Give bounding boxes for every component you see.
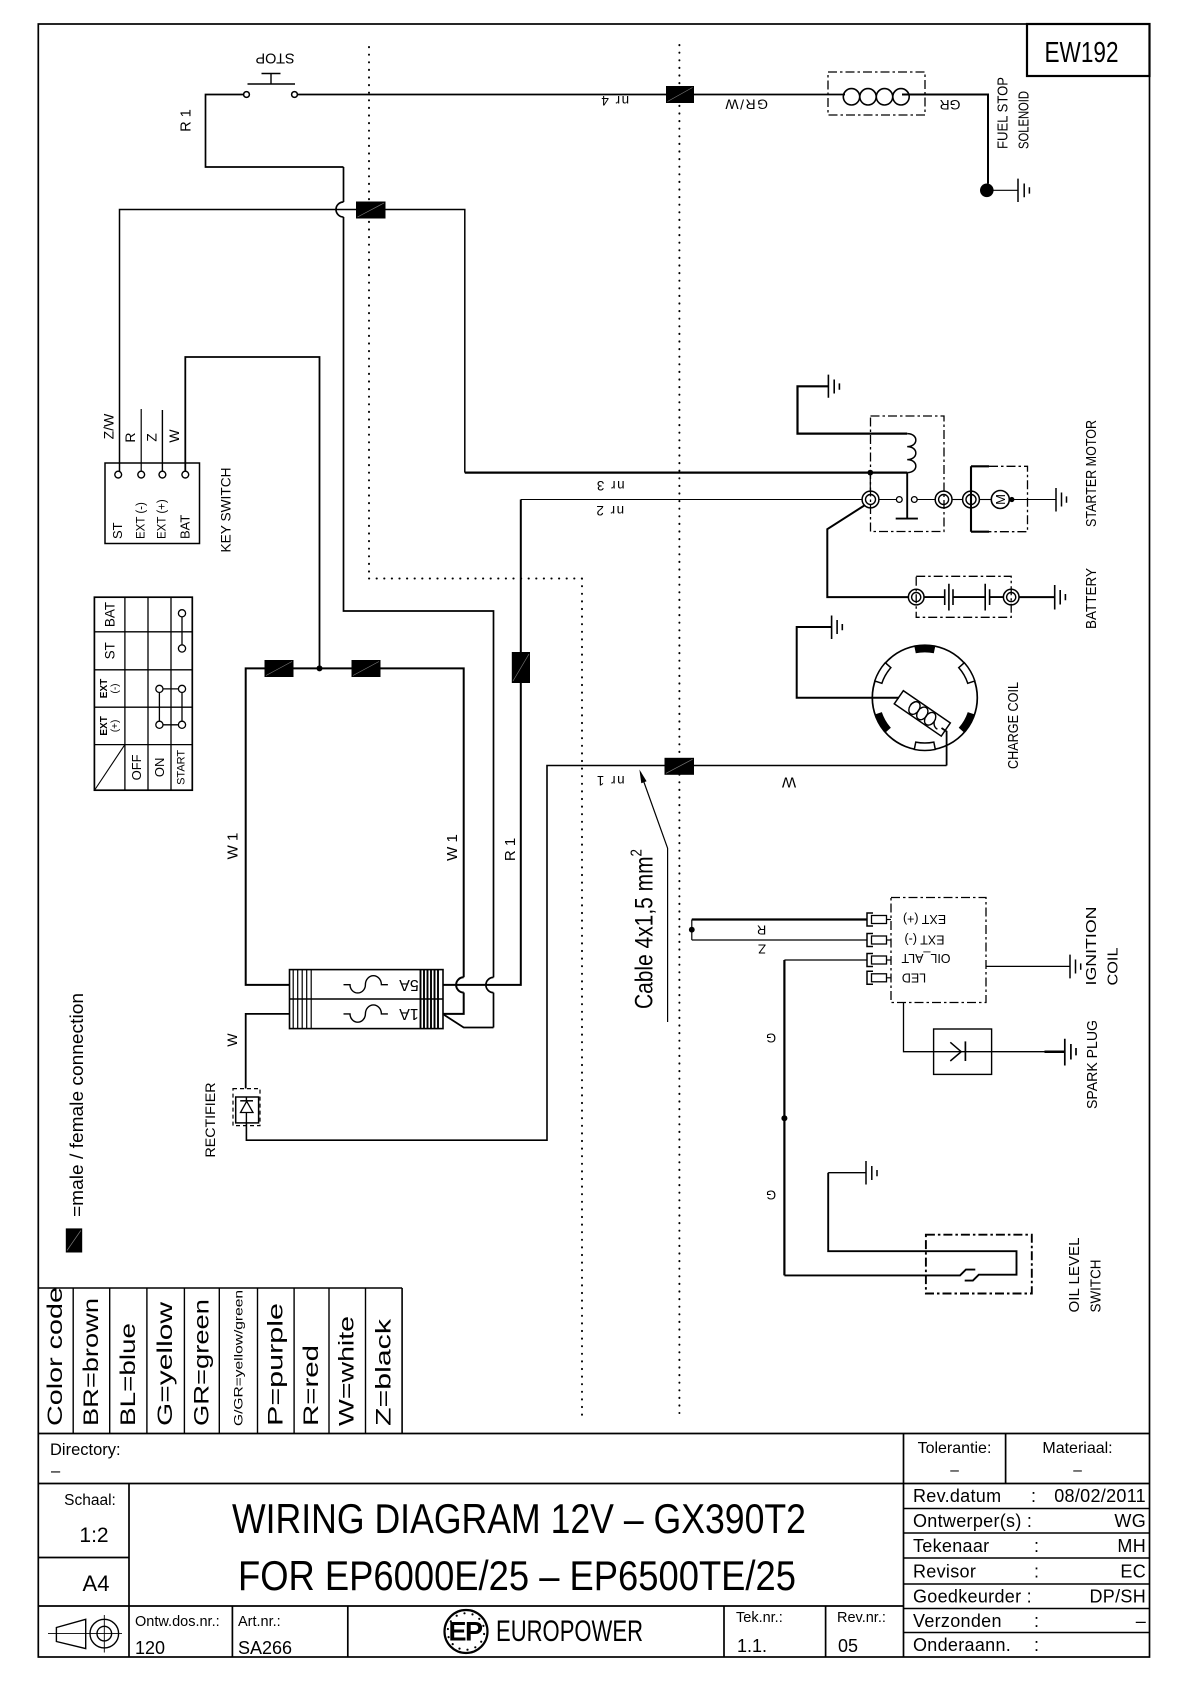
charge coil winding <box>894 691 950 736</box>
wire: 1A fuse left to rectifier <box>246 1014 290 1089</box>
svg-text:WIRING DIAGRAM 12V – GX390T2: WIRING DIAGRAM 12V – GX390T2 <box>232 1495 806 1542</box>
spark plug diode box <box>934 1029 1045 1074</box>
svg-text:RECTIFIER: RECTIFIER <box>203 1082 218 1157</box>
node: G wire junction dot <box>781 1115 787 1121</box>
svg-text:EC: EC <box>1120 1562 1146 1582</box>
svg-text:STOP: STOP <box>255 50 294 66</box>
svg-text:–: – <box>1073 1462 1082 1479</box>
rectifier D1 <box>233 1089 260 1126</box>
cable boundary dotted line B <box>678 45 680 1413</box>
EW192 title box <box>1027 24 1150 76</box>
title block: revision rows <box>913 1486 1146 1655</box>
svg-text:M: M <box>993 494 1008 505</box>
title block: Tolerantie / Materiaal <box>918 1440 1113 1479</box>
svg-text:Ontwerper(s) :: Ontwerper(s) : <box>913 1511 1032 1531</box>
svg-text:R 1: R 1 <box>502 838 519 861</box>
connector on W1 right (male/female) <box>352 660 381 677</box>
starter motor terminal (female) <box>963 491 980 508</box>
svg-text:Onderaann.: Onderaann. <box>913 1635 1011 1655</box>
svg-text:=male / female connection: =male / female connection <box>67 993 87 1217</box>
node: nr3 / relay junction <box>867 470 873 476</box>
svg-text:Cable 4x1,5 mm2: Cable 4x1,5 mm2 <box>628 849 659 1009</box>
ignition coil terminal OIL_ALT pin <box>867 954 891 967</box>
wire W: key switch BAT terminal to W1 junction <box>185 357 319 666</box>
svg-text:Goedkeurder :: Goedkeurder : <box>913 1587 1032 1607</box>
svg-text:EXT (+): EXT (+) <box>157 499 169 539</box>
wire R1: nr2 down to 5A fuse right <box>444 500 521 985</box>
svg-text:WG: WG <box>1114 1511 1146 1531</box>
svg-text:Ontw.dos.nr.:: Ontw.dos.nr.: <box>135 1614 220 1630</box>
svg-text:Tolerantie:: Tolerantie: <box>918 1440 992 1457</box>
wire nr2: to starter relay contact <box>521 499 862 501</box>
svg-text:nr 4: nr 4 <box>600 93 629 108</box>
svg-text:W: W <box>781 774 796 791</box>
wire nr3: to starter relay coil <box>465 472 907 474</box>
wire ignition coil to ground <box>986 965 1070 967</box>
ignition coil pin labels <box>901 912 950 985</box>
first angle projection symbol <box>48 1615 122 1653</box>
svg-text:1.1.: 1.1. <box>737 1636 767 1656</box>
ground (charge coil) <box>797 616 899 698</box>
legend: male/female connection symbol <box>66 1228 82 1252</box>
svg-text:5A: 5A <box>399 976 419 993</box>
relay coil <box>907 434 916 473</box>
wire charge coil to nr1/W <box>942 728 947 766</box>
svg-text:Color code: Color code <box>44 1287 67 1426</box>
svg-text:OIL LEVEL: OIL LEVEL <box>1066 1238 1083 1313</box>
key switch position table <box>94 597 192 790</box>
wire relay terminal 1 to battery <box>827 506 908 598</box>
svg-text:G: G <box>766 1188 776 1203</box>
svg-text:FOR EP6000E/25 – EP6500TE/25: FOR EP6000E/25 – EP6500TE/25 <box>238 1552 796 1599</box>
svg-text:EXT: EXT <box>99 679 110 698</box>
wire to spark plug ground <box>1045 1050 1065 1053</box>
svg-text:Z: Z <box>144 433 160 442</box>
svg-text:ON: ON <box>152 758 167 778</box>
relay actuator <box>896 473 918 519</box>
ignition coil terminal EXT(-) pin <box>867 934 891 947</box>
cable boundary dotted line A <box>369 47 582 1416</box>
svg-text:BR=brown: BR=brown <box>80 1298 103 1426</box>
EUROPOWER logo <box>445 1610 644 1653</box>
key switch SW1 <box>105 463 200 544</box>
svg-text:EP: EP <box>448 1617 483 1647</box>
svg-text:–: – <box>51 1462 61 1480</box>
ground (fuel stop solenoid) <box>994 179 1030 202</box>
ground (battery) <box>1055 585 1066 610</box>
svg-text:FUEL STOP: FUEL STOP <box>996 77 1012 149</box>
arrow from cable label to wire nr1 <box>639 770 667 1023</box>
svg-text:SWITCH: SWITCH <box>1088 1260 1105 1313</box>
wire G to oil level switch contact <box>784 1270 975 1276</box>
svg-text:SOLENOID: SOLENOID <box>1017 91 1033 149</box>
svg-text:EXT (-): EXT (-) <box>904 932 944 946</box>
svg-text:BATTERY: BATTERY <box>1083 568 1100 629</box>
svg-text:CHARGE COIL: CHARGE COIL <box>1005 682 1022 769</box>
ground (oil level switch) <box>828 1161 877 1185</box>
svg-text:R 1: R 1 <box>179 109 195 132</box>
svg-text:P=purple: P=purple <box>264 1303 287 1426</box>
svg-text:08/02/2011: 08/02/2011 <box>1054 1486 1146 1506</box>
svg-text:ST: ST <box>110 522 125 539</box>
wire G: oil alert to oil level switch <box>784 959 867 961</box>
relay terminal 1 (female) <box>862 491 879 508</box>
svg-text:Tek.nr.:: Tek.nr.: <box>736 1610 783 1626</box>
svg-text:Z/W: Z/W <box>101 413 117 439</box>
connector on R1 (male/female, vertical) <box>512 652 530 683</box>
svg-text:BAT: BAT <box>178 515 193 539</box>
wire battery to ground <box>1019 596 1055 598</box>
svg-text::: : <box>1034 1536 1039 1556</box>
svg-text:START: START <box>176 750 188 785</box>
svg-text:LED: LED <box>902 970 926 984</box>
svg-text:G/GR=yellow/green: G/GR=yellow/green <box>231 1290 245 1426</box>
svg-text:05: 05 <box>838 1636 858 1656</box>
svg-text:W: W <box>224 1033 240 1047</box>
wire GR: solenoid to ground <box>902 95 988 184</box>
svg-text:nr 1: nr 1 <box>595 773 624 788</box>
ground (starter relay coil feed) <box>798 375 908 434</box>
charge coil G1 <box>872 645 977 750</box>
svg-text:nr 3: nr 3 <box>595 478 624 493</box>
svg-text:A4: A4 <box>83 1571 110 1596</box>
charge coil rim magnet segments <box>875 645 975 751</box>
svg-text:KEY SWITCH: KEY SWITCH <box>218 468 234 553</box>
color code table <box>38 1287 402 1434</box>
svg-text:nr 2: nr 2 <box>595 503 624 518</box>
svg-text:Z=black: Z=black <box>372 1318 395 1426</box>
svg-text:1:2: 1:2 <box>79 1524 108 1547</box>
svg-text:Schaal:: Schaal: <box>64 1492 116 1509</box>
svg-text:–: – <box>1136 1611 1146 1631</box>
svg-text:Directory:: Directory: <box>50 1441 121 1459</box>
svg-text:SPARK PLUG: SPARK PLUG <box>1084 1020 1101 1109</box>
svg-text:OFF: OFF <box>129 754 144 780</box>
wire W1 loop: 5A fuse left, up, across, down to 1A fuse right <box>246 668 464 1014</box>
svg-text:GR: GR <box>940 97 961 113</box>
svg-text:Art.nr.:: Art.nr.: <box>238 1614 281 1630</box>
svg-text:W 1: W 1 <box>444 834 461 861</box>
svg-text:EXT (-): EXT (-) <box>135 502 147 539</box>
wire R1: stop button left terminal down to 1A fuse <box>206 95 494 1028</box>
svg-text:Tekenaar: Tekenaar <box>913 1536 989 1556</box>
svg-text:Verzonden: Verzonden <box>913 1611 1002 1631</box>
svg-text::: : <box>1031 1486 1036 1506</box>
svg-text:EXT: EXT <box>99 716 110 735</box>
svg-text:R: R <box>757 923 766 938</box>
svg-text:–: – <box>950 1462 959 1479</box>
connector on wire Z/W (male/female) <box>356 202 386 219</box>
connector on W1 left (male/female) <box>265 660 294 677</box>
ignition coil U1 box <box>891 898 986 1003</box>
wire relay to starter motor <box>952 499 963 501</box>
svg-text:OIL_ALT: OIL_ALT <box>901 951 950 965</box>
ground (spark plug) <box>1065 1039 1076 1066</box>
svg-text:(+): (+) <box>110 720 121 733</box>
battery BT1 <box>908 576 1019 617</box>
label OIL LEVEL SWITCH <box>1066 1238 1105 1313</box>
wire ignition coil to spark plug diode <box>904 1003 934 1052</box>
svg-text:(-): (-) <box>110 684 121 694</box>
wire ground to oil level switch <box>828 1173 1016 1281</box>
oil level switch S2 box <box>926 1235 1032 1294</box>
ignition coil terminal EXT(+) pin <box>867 913 891 926</box>
svg-text:W: W <box>166 429 182 443</box>
push button S1 STOP <box>244 50 298 98</box>
svg-text:EW192: EW192 <box>1045 37 1119 69</box>
svg-text::: : <box>1034 1611 1039 1631</box>
starter motor box <box>971 466 1028 531</box>
svg-text:120: 120 <box>135 1638 165 1658</box>
wire: junction down to relay terminal <box>869 473 871 491</box>
svg-text:COIL: COIL <box>1105 948 1122 986</box>
wire Z stub (key switch EXT+) <box>161 410 163 472</box>
relay terminal 2 (female) <box>935 491 952 508</box>
ignition coil terminal LED pin <box>867 971 891 984</box>
svg-text:R: R <box>122 432 138 442</box>
svg-text:Rev.datum: Rev.datum <box>913 1486 1001 1506</box>
svg-text:BL=blue: BL=blue <box>117 1323 140 1426</box>
title block: bottom row cells <box>135 1610 886 1658</box>
svg-text:IGNITION: IGNITION <box>1083 907 1100 986</box>
node: R/Z junction stub <box>689 920 695 941</box>
svg-text:W=white: W=white <box>336 1316 359 1426</box>
svg-text::: : <box>1034 1635 1039 1655</box>
starter relay K1 (dash-dot box) <box>871 416 945 532</box>
fuse block F1/F2 <box>290 970 444 1029</box>
wire nr1/W: rectifier to charge coil <box>246 766 946 1141</box>
fuel stop solenoid L1 <box>828 72 925 115</box>
svg-text:Rev.nr.:: Rev.nr.: <box>837 1610 886 1626</box>
wire Z/W: key switch ST terminal up and right (nr 3 feed) <box>120 210 465 473</box>
svg-text:EUROPOWER: EUROPOWER <box>496 1615 643 1648</box>
wire nr4: stop button right terminal to fuel stop solenoid <box>297 94 845 96</box>
svg-text:DP/SH: DP/SH <box>1089 1587 1146 1607</box>
wire: 1A fuse output to R1 stop wire <box>444 1015 494 1028</box>
svg-text:GR=green: GR=green <box>190 1299 213 1426</box>
svg-text:EXT (+): EXT (+) <box>903 912 946 926</box>
ground (ignition coil) <box>1070 955 1081 979</box>
svg-text:G: G <box>766 1031 776 1046</box>
svg-text:R=red: R=red <box>300 1345 323 1426</box>
svg-text:1A: 1A <box>399 1005 419 1022</box>
wire Z: to ignition coil EXT(-) <box>692 939 868 941</box>
svg-text:ST: ST <box>103 642 118 659</box>
motor M1 <box>980 491 1056 509</box>
title block grid <box>38 1434 1149 1658</box>
connector nr4 (male/female) <box>666 86 694 103</box>
label FUEL STOP SOLENOID <box>996 77 1033 149</box>
connector nr1 (male/female) <box>665 758 695 775</box>
svg-text:BAT: BAT <box>103 602 118 627</box>
svg-text:Revisor: Revisor <box>913 1562 976 1582</box>
node: solenoid ground junction dot <box>980 184 994 198</box>
label IGNITION COIL <box>1083 907 1122 986</box>
svg-text:SA266: SA266 <box>238 1638 292 1658</box>
relay contact <box>879 497 935 503</box>
svg-text:Materiaal:: Materiaal: <box>1042 1440 1112 1457</box>
svg-text:Z: Z <box>758 941 766 956</box>
wire R: to ignition coil EXT(+) <box>692 918 868 920</box>
wire labels Z/W R Z W <box>101 413 183 443</box>
wire R stub (key switch EXT-) <box>140 409 142 472</box>
node: W1 / BAT wire junction <box>317 665 323 671</box>
svg-text:GR/W: GR/W <box>724 97 768 113</box>
svg-text::: : <box>1034 1562 1039 1582</box>
svg-text:W 1: W 1 <box>225 833 242 860</box>
svg-text:STARTER MOTOR: STARTER MOTOR <box>1083 420 1100 527</box>
svg-text:G=yellow: G=yellow <box>154 1301 177 1426</box>
ground (starter motor) <box>1056 488 1067 512</box>
svg-text:MH: MH <box>1117 1536 1146 1556</box>
